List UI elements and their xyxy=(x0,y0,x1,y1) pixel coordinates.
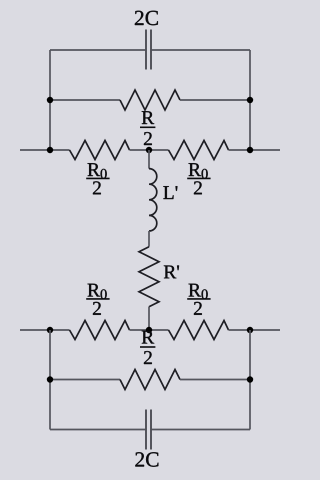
label R0/2 bottom-left subscript 0 xyxy=(101,289,107,299)
label R0/2 top-left fraction bar xyxy=(86,177,109,179)
resistor R/2 bottom horizontal zigzag xyxy=(120,370,180,390)
resistor R' vertical zigzag xyxy=(139,247,159,307)
wire left rail top xyxy=(49,50,51,150)
wire top row left to capacitor xyxy=(50,49,145,51)
wire second row left xyxy=(50,99,120,101)
label R/2 top denominator 2 xyxy=(144,132,152,145)
wire main row top left lead xyxy=(20,149,70,151)
label L' xyxy=(163,186,177,199)
label R/2 bottom numerator R xyxy=(142,331,154,344)
wire inductor to resistor R' xyxy=(148,231,150,247)
label R0/2 bottom-right denominator 2 xyxy=(194,302,202,315)
label R0/2 top-right subscript 0 xyxy=(202,169,208,179)
node dot main row top center xyxy=(146,147,152,153)
label R' xyxy=(164,266,179,279)
wire right rail bottom xyxy=(249,330,251,430)
wire main row bottom right lead xyxy=(229,329,281,331)
label R0/2 top-left denominator 2 xyxy=(93,181,101,194)
label R0/2 top-right denominator 2 xyxy=(194,181,202,194)
label R/2 bottom denominator 2 xyxy=(144,351,152,364)
label R/2 top fraction bar xyxy=(140,126,155,128)
resistor R0/2 top-right zigzag xyxy=(169,141,229,160)
node dot main row bottom center xyxy=(146,327,152,333)
label R0/2 top-left subscript 0 xyxy=(101,169,107,179)
label R/2 bottom fraction bar xyxy=(140,346,155,348)
label R0/2 top-right numerator R xyxy=(189,163,201,176)
wire R' down to bottom main row xyxy=(148,307,150,330)
wire bottom row left to capacitor xyxy=(50,429,145,431)
capacitor 2C bottom value label xyxy=(135,452,158,466)
label R0/2 bottom-left numerator R xyxy=(88,284,100,297)
label R0/2 bottom-left fraction bar xyxy=(86,298,109,300)
wire second row right xyxy=(180,99,250,101)
label R/2 top numerator R xyxy=(142,111,154,124)
wire capacitor to top row right xyxy=(152,49,250,51)
wire main row bottom middle xyxy=(130,329,169,331)
node dot main row top left xyxy=(47,147,53,153)
wire capacitor to bottom row right xyxy=(152,429,250,431)
label R0/2 top-left numerator R xyxy=(88,163,100,176)
wire right rail top xyxy=(249,50,251,150)
wire main row bottom left lead xyxy=(20,329,70,331)
node dot second row right xyxy=(247,97,253,103)
label R0/2 bottom-right numerator R xyxy=(189,284,201,297)
label R0/2 bottom-right fraction bar xyxy=(187,298,210,300)
capacitor 2C bottom plates xyxy=(146,410,151,450)
resistor R/2 top horizontal zigzag xyxy=(120,90,180,110)
resistor R0/2 top-left zigzag xyxy=(70,141,130,160)
label R0/2 top-right fraction bar xyxy=(187,177,210,179)
node dot second row left xyxy=(47,97,53,103)
capacitor 2C top plates xyxy=(146,30,151,70)
node dot fourth row left xyxy=(47,376,53,382)
node dot main row bottom left xyxy=(47,327,53,333)
label R0/2 bottom-left denominator 2 xyxy=(93,302,101,315)
wire fourth row right xyxy=(180,379,250,381)
wire main row top middle xyxy=(130,149,169,151)
capacitor 2C top value label xyxy=(135,11,158,25)
resistor R0/2 bottom-left zigzag xyxy=(70,321,130,340)
label R0/2 bottom-right subscript 0 xyxy=(202,289,208,299)
wire main row top right lead xyxy=(229,149,281,151)
wire left rail bottom xyxy=(49,330,51,430)
resistor R0/2 bottom-right zigzag xyxy=(169,321,229,340)
wire center node down to inductor xyxy=(148,150,150,169)
inductor L' coil xyxy=(149,169,157,231)
wire fourth row left xyxy=(50,379,120,381)
node dot main row top right xyxy=(247,147,253,153)
node dot fourth row right xyxy=(247,376,253,382)
node dot main row bottom right xyxy=(247,327,253,333)
